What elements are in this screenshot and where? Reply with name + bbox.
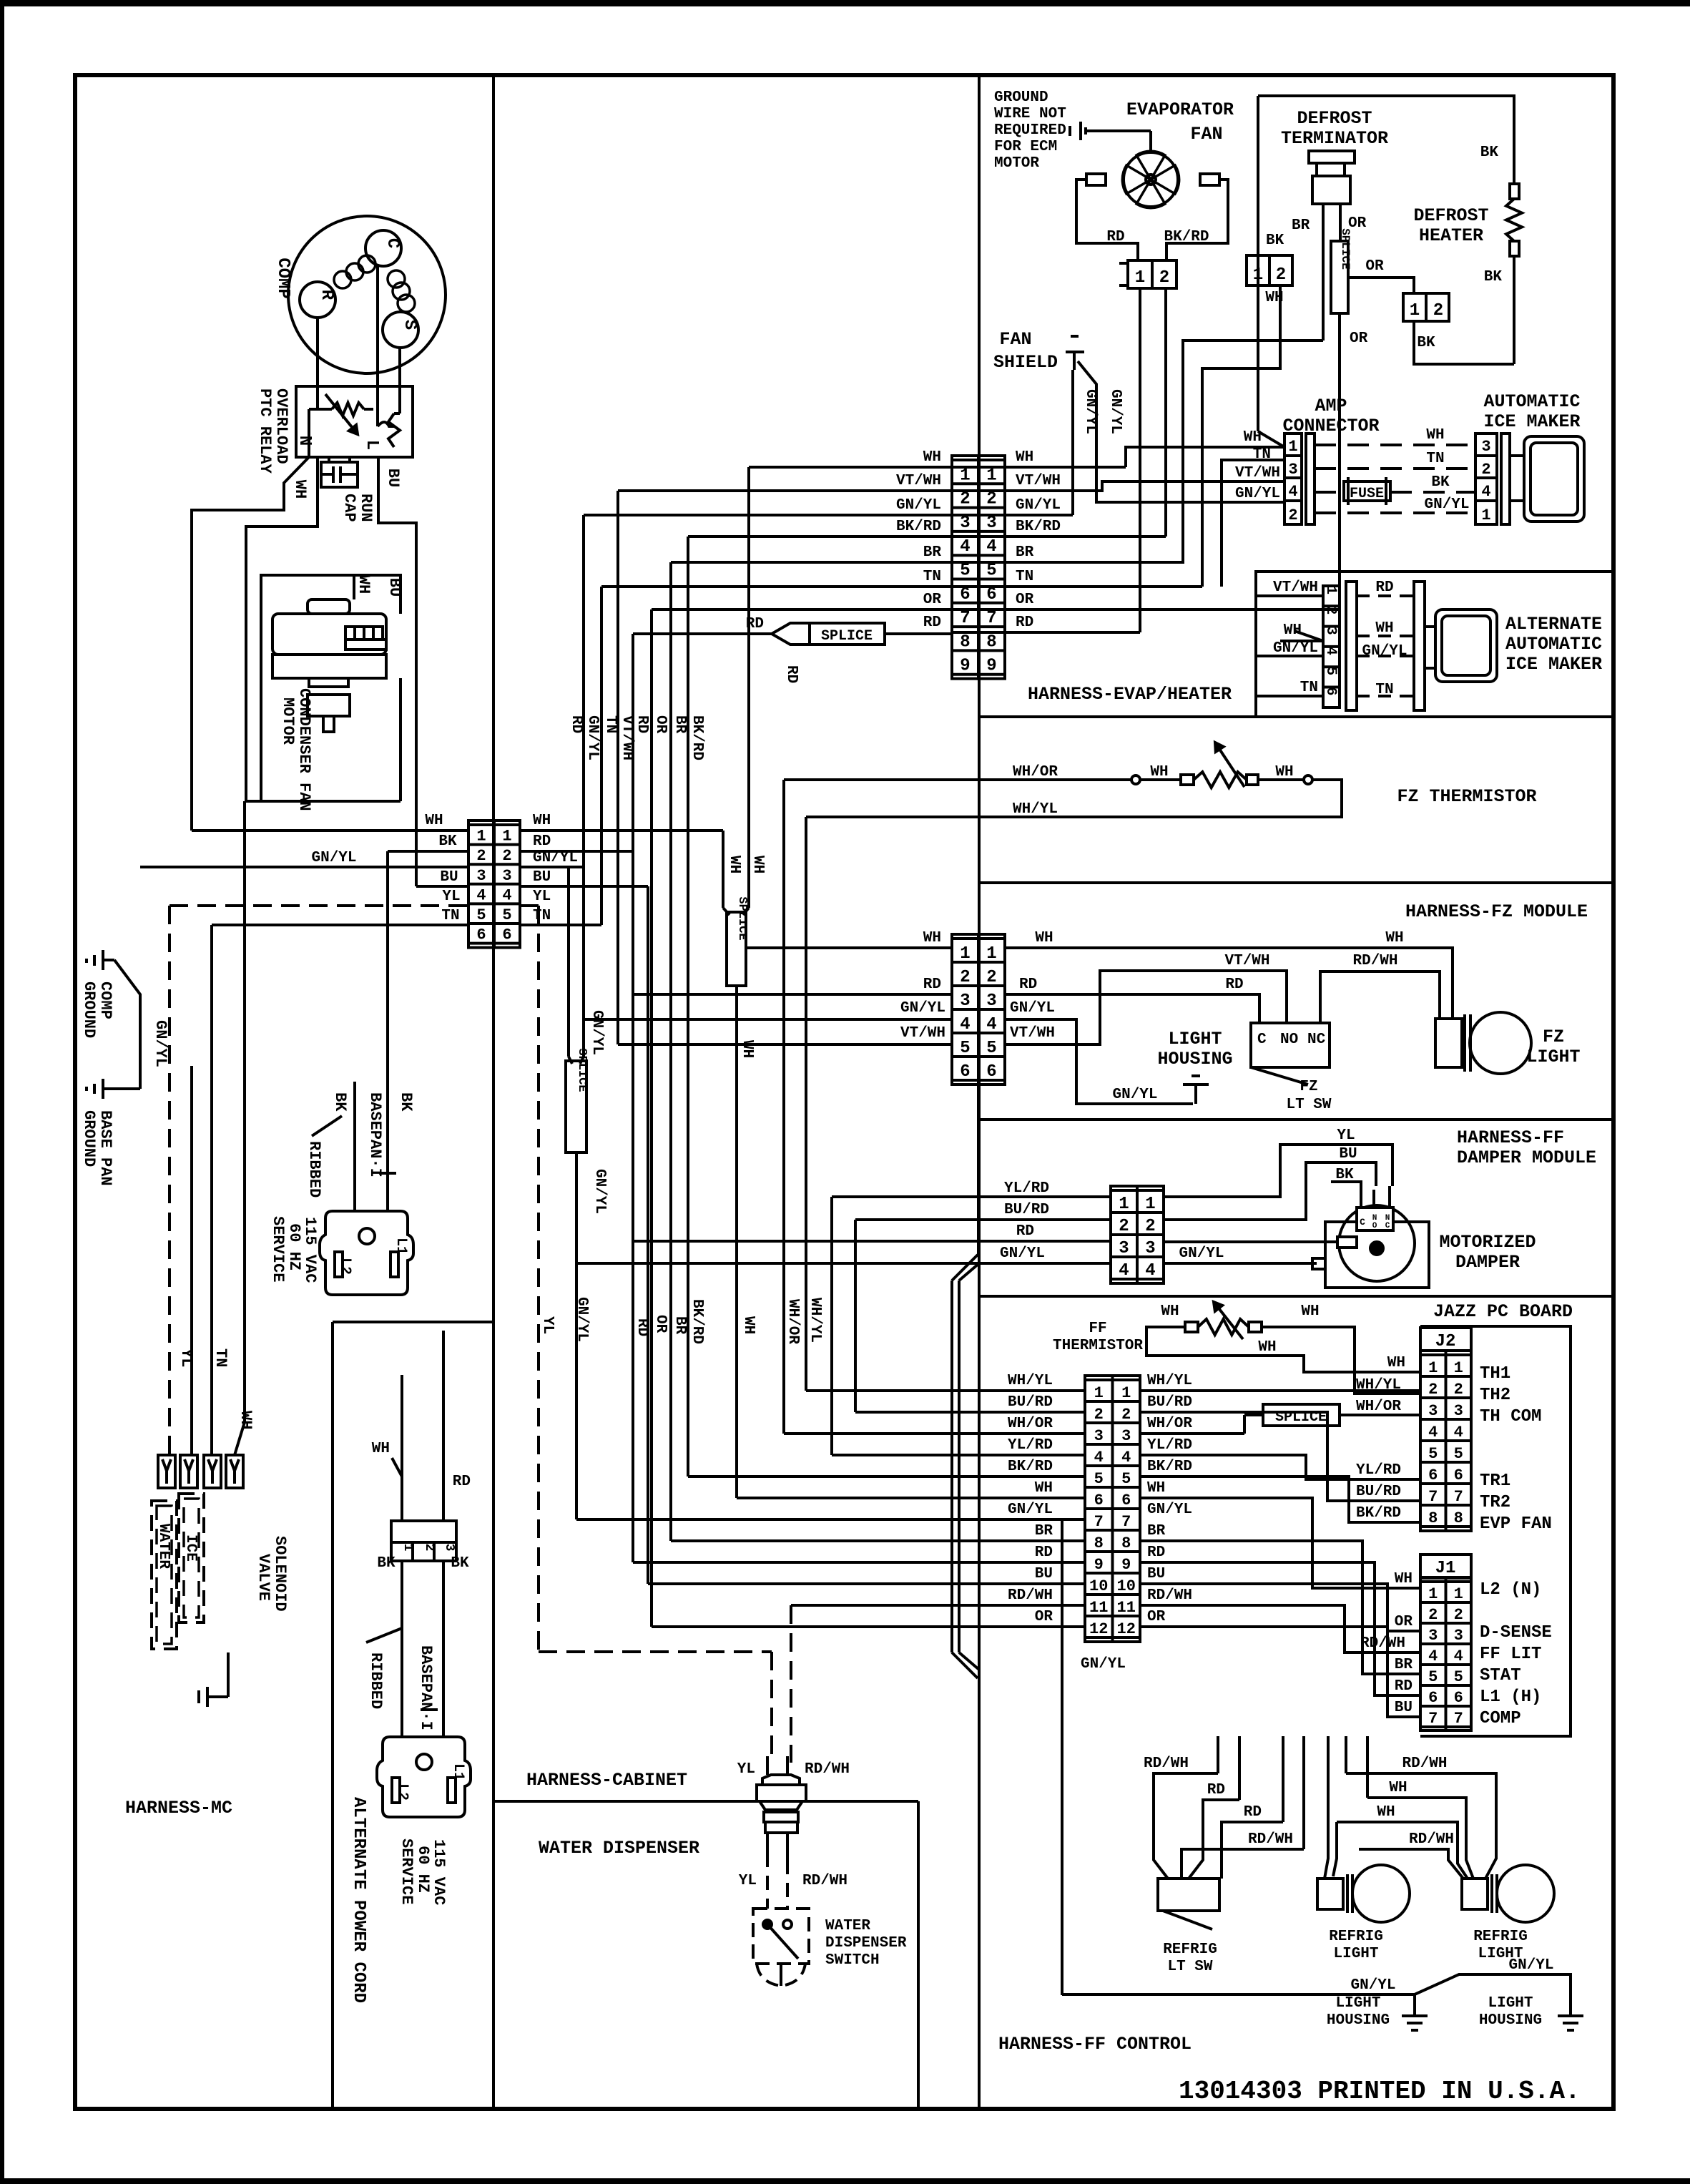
dashed harness rows to ice maker	[1315, 444, 1475, 446]
svg-text:2: 2	[1454, 1381, 1463, 1399]
FZ light bulb globe	[1470, 1012, 1531, 1074]
9-pin row1 wire WH	[749, 466, 952, 469]
basepan tick	[379, 1172, 396, 1175]
svg-text:VALVE: VALVE	[255, 1554, 272, 1601]
12-pin right row BK/RD to J2 EVP FAN	[1140, 1477, 1420, 1522]
svg-text:7: 7	[1094, 1513, 1104, 1531]
svg-text:1: 1	[1145, 1195, 1155, 1214]
svg-text:TN: TN	[602, 715, 619, 733]
defrost heater connector 1-2	[1403, 293, 1449, 321]
splice OR output right	[1348, 278, 1414, 293]
svg-text:BK: BK	[1480, 145, 1499, 161]
GN/YL wire to bottom section	[1061, 1519, 1063, 1995]
svg-text:BR: BR	[1395, 1657, 1413, 1673]
dashed GN/YL vertical to solenoid	[168, 906, 171, 1455]
svg-text:ICE MAKER: ICE MAKER	[1505, 654, 1602, 675]
svg-text:GN/YL: GN/YL	[1362, 643, 1407, 660]
svg-text:3: 3	[1094, 1427, 1104, 1445]
row RD to LT SW	[1189, 1800, 1239, 1879]
svg-text:TN: TN	[533, 908, 551, 924]
svg-text:3: 3	[1428, 1402, 1438, 1420]
dashed YL bus	[520, 904, 539, 907]
ground1 symbol	[1413, 1994, 1416, 2016]
divider below harness-fz module	[979, 1118, 1613, 1121]
svg-text:GROUND: GROUND	[80, 1110, 98, 1167]
damper pin2 wire BU	[1164, 1162, 1376, 1220]
6-pin A right row RD	[520, 850, 633, 853]
wire OR row7 to splice	[952, 608, 1340, 611]
defrost splice vertical	[1331, 241, 1348, 313]
relay overload switch	[378, 422, 395, 426]
wire WH from relay N down-left	[192, 457, 309, 831]
svg-text:BK: BK	[1417, 335, 1435, 351]
svg-text:STAT: STAT	[1480, 1666, 1521, 1685]
9-pin row6 wire TN	[601, 585, 952, 588]
12-pin left wires	[806, 1389, 1085, 1392]
svg-text:LIGHT: LIGHT	[1168, 1029, 1222, 1049]
svg-text:3: 3	[1145, 1239, 1155, 1258]
svg-text:WH: WH	[372, 1441, 390, 1457]
svg-text:RIBBED: RIBBED	[367, 1652, 385, 1709]
condenser fan motor shaft	[309, 678, 348, 687]
refrig light1 base	[1317, 1879, 1343, 1909]
svg-text:2: 2	[986, 490, 996, 509]
condenser fan motor top cap	[308, 599, 350, 614]
divider below harness-cabinet	[493, 1800, 918, 1803]
svg-text:BU: BU	[1339, 1146, 1357, 1162]
svg-text:1: 1	[476, 828, 486, 846]
solenoid ground wire	[227, 1652, 230, 1697]
12-pin right row BU to J1 COMP	[1140, 1584, 1420, 1717]
svg-text:BR: BR	[1016, 544, 1034, 561]
svg-text:GN/YL: GN/YL	[311, 850, 356, 866]
svg-text:3: 3	[502, 867, 511, 885]
svg-text:5: 5	[1454, 1445, 1463, 1463]
row WH right	[1367, 1798, 1473, 1879]
wire splice to 9-pin pin8	[885, 632, 952, 635]
ice maker connector pins	[1475, 434, 1497, 524]
svg-text:YL: YL	[177, 1348, 195, 1367]
bus BR	[669, 562, 672, 1541]
svg-text:2: 2	[476, 847, 486, 865]
svg-text:BK: BK	[1431, 474, 1450, 491]
svg-text:WH: WH	[1258, 1339, 1276, 1356]
connector A pin2 wire BK left	[388, 850, 468, 853]
svg-text:VT/WH: VT/WH	[1016, 473, 1061, 489]
svg-text:1: 1	[1428, 1585, 1438, 1603]
svg-text:O: O	[1372, 1222, 1377, 1230]
defrost terminator body	[1312, 176, 1350, 204]
svg-text:COMP: COMP	[1480, 1709, 1521, 1728]
svg-text:RD/WH: RD/WH	[1248, 1831, 1293, 1848]
switch contacts	[763, 1920, 772, 1929]
water inline connector	[762, 1775, 800, 1785]
svg-text:RD: RD	[923, 976, 941, 993]
FZ pin4 wire GN/YL to ground	[1005, 1019, 1193, 1104]
fan shield ground symbol	[1071, 335, 1079, 338]
svg-text:11: 11	[1117, 1599, 1136, 1617]
wire S to relay	[398, 347, 401, 413]
svg-text:GN/YL: GN/YL	[591, 1169, 608, 1214]
svg-text:BR: BR	[1292, 217, 1310, 234]
svg-text:J1: J1	[1435, 1559, 1456, 1578]
page edge left bar	[0, 0, 4, 2184]
svg-text:1: 1	[1288, 438, 1297, 456]
svg-text:OR: OR	[1147, 1609, 1166, 1625]
svg-text:6: 6	[476, 926, 486, 944]
svg-text:LT SW: LT SW	[1286, 1097, 1331, 1113]
svg-text:3: 3	[442, 1544, 456, 1552]
12-pin right row BU/RD to J2 TR2	[1140, 1412, 1420, 1501]
svg-text:BK/RD: BK/RD	[689, 1299, 705, 1344]
svg-text:2: 2	[1094, 1406, 1104, 1424]
damper center hub	[1370, 1242, 1383, 1255]
row RD/WH to LT SW	[1154, 1773, 1218, 1879]
svg-text:7: 7	[1454, 1488, 1463, 1506]
ice maker connector bar	[1501, 434, 1510, 524]
svg-text:WH: WH	[533, 813, 551, 829]
defrost heater loop	[1414, 321, 1514, 364]
divider alternate power cord left	[331, 1322, 334, 2109]
svg-text:10: 10	[1117, 1577, 1136, 1595]
svg-text:HARNESS-CABINET: HARNESS-CABINET	[526, 1770, 687, 1791]
svg-text:RD: RD	[533, 833, 551, 850]
svg-text:FZ: FZ	[1300, 1079, 1317, 1095]
svg-text:GN/YL: GN/YL	[589, 1010, 605, 1055]
alt cord RD wire	[442, 1331, 445, 1521]
svg-text:GN/YL: GN/YL	[1107, 389, 1124, 434]
svg-text:TH2: TH2	[1480, 1386, 1510, 1405]
FZ LT SW blade	[1251, 1067, 1308, 1084]
svg-text:5: 5	[1094, 1470, 1104, 1488]
svg-text:HARNESS-MC: HARNESS-MC	[125, 1798, 232, 1818]
svg-text:11: 11	[1089, 1599, 1108, 1617]
svg-text:PTC RELAY: PTC RELAY	[256, 388, 274, 474]
fan terminal right	[1200, 174, 1219, 185]
svg-text:4: 4	[986, 1015, 996, 1034]
svg-text:1: 1	[960, 944, 970, 964]
svg-text:GN/YL: GN/YL	[152, 1020, 170, 1067]
svg-text:L1: L1	[393, 1238, 409, 1255]
svg-text:MOTOR: MOTOR	[279, 697, 297, 745]
svg-text:C: C	[1360, 1217, 1365, 1228]
svg-text:1: 1	[986, 944, 996, 964]
svg-text:6: 6	[1454, 1466, 1463, 1484]
svg-text:3: 3	[986, 991, 996, 1011]
evaporator fan stem	[1149, 131, 1152, 153]
water valve dashed box WATER	[152, 1501, 177, 1649]
svg-text:WH: WH	[291, 480, 309, 499]
svg-text:5: 5	[476, 906, 486, 924]
comp terminal R	[300, 282, 335, 318]
svg-text:BK: BK	[397, 1092, 415, 1112]
svg-text:BR: BR	[1035, 1523, 1053, 1539]
svg-text:9: 9	[960, 657, 970, 676]
svg-text:4: 4	[1288, 483, 1297, 501]
svg-text:BR: BR	[923, 544, 942, 561]
svg-text:NO: NO	[1280, 1032, 1298, 1048]
wire R to relay resistor	[316, 317, 319, 409]
svg-text:TR1: TR1	[1480, 1471, 1510, 1491]
damper row BU/RD	[855, 1218, 1111, 1221]
splice GN/YL output	[575, 1152, 578, 1519]
row RD mid	[1222, 1822, 1283, 1879]
svg-text:HOUSING: HOUSING	[1479, 2012, 1542, 2029]
divider right of water dispenser	[917, 1801, 920, 2109]
svg-text:FUSE: FUSE	[1350, 486, 1384, 502]
connector A pin4 wire BU left	[416, 885, 468, 888]
damper pin1 wire YL	[1164, 1145, 1392, 1197]
J1 connector header	[1420, 1554, 1471, 1577]
svg-text:WH: WH	[726, 856, 742, 873]
wire TN row6	[952, 585, 1202, 588]
basepan tick alt	[421, 1708, 438, 1711]
svg-text:BU: BU	[533, 869, 551, 886]
plug prong L1	[390, 1252, 398, 1277]
FZ light bulb base	[1435, 1019, 1462, 1067]
relay resistor arrow	[325, 394, 358, 434]
svg-text:RD: RD	[1395, 1678, 1413, 1695]
SPLICE box row8	[810, 623, 885, 645]
svg-text:REFRIG: REFRIG	[1473, 1929, 1528, 1945]
svg-text:RD: RD	[746, 616, 764, 632]
svg-text:TN: TN	[212, 1348, 230, 1367]
svg-text:FF: FF	[1089, 1321, 1106, 1337]
wire RD row8 to evap	[952, 631, 1140, 634]
thermistor left node	[1131, 775, 1140, 784]
svg-text:SPLICE: SPLICE	[575, 1048, 589, 1092]
svg-text:YL/RD: YL/RD	[1147, 1437, 1192, 1454]
svg-text:2: 2	[1276, 265, 1286, 285]
svg-text:BU: BU	[1035, 1566, 1053, 1582]
svg-text:LIGHT: LIGHT	[1333, 1946, 1378, 1962]
alternate ice maker box	[1256, 572, 1613, 717]
svg-text:8: 8	[1454, 1509, 1463, 1527]
svg-text:RIBBED: RIBBED	[305, 1141, 323, 1198]
alt ice maker symbol	[1435, 609, 1497, 682]
svg-text:RD/WH: RD/WH	[1352, 953, 1397, 969]
page edge bottom bar	[0, 2178, 1690, 2184]
FZ pin1 wire WH to light	[1005, 948, 1453, 1019]
dashed YL horizontal to water dispenser	[539, 1650, 772, 1653]
damper row RD	[633, 1240, 1111, 1243]
svg-text:YL: YL	[533, 888, 551, 905]
AMP connector bar	[1306, 434, 1315, 524]
plug ground hole	[359, 1228, 375, 1244]
connector A pin3 wire GN/YL left	[140, 866, 468, 868]
svg-text:WATER DISPENSER: WATER DISPENSER	[539, 1838, 699, 1859]
fan loop wires	[1076, 180, 1138, 260]
svg-text:1: 1	[1454, 1359, 1463, 1377]
svg-text:EVP FAN: EVP FAN	[1480, 1514, 1552, 1534]
svg-text:6: 6	[502, 926, 511, 944]
svg-text:D-SENSE: D-SENSE	[1480, 1623, 1552, 1642]
splice WH output down	[735, 986, 738, 1498]
svg-text:L2 (N): L2 (N)	[1480, 1580, 1541, 1600]
svg-text:5: 5	[1322, 667, 1339, 675]
12-pin right row YL/RD to J2 TR1	[1140, 1455, 1420, 1479]
defrost terminator neck	[1317, 163, 1345, 176]
FF therm right wire	[1262, 1327, 1420, 1394]
wire WH row1 to AMP	[952, 466, 1126, 469]
bus VT/WH	[616, 491, 619, 1044]
wire light1 left drop	[1325, 1736, 1328, 1879]
svg-text:CONDENSER FAN: CONDENSER FAN	[295, 688, 313, 811]
damper rows from buses YL/RD	[832, 1195, 1111, 1198]
svg-text:FZ THERMISTOR: FZ THERMISTOR	[1397, 786, 1536, 807]
damper prongs	[1360, 1186, 1362, 1208]
svg-text:TN: TN	[1253, 446, 1271, 463]
svg-text:WATER: WATER	[825, 1918, 870, 1934]
svg-text:1: 1	[1253, 265, 1263, 285]
svg-text:WH: WH	[1161, 1303, 1179, 1320]
svg-text:WH/YL: WH/YL	[807, 1298, 823, 1343]
svg-text:WH: WH	[1426, 427, 1444, 444]
svg-text:13014303 PRINTED IN U.S.A.: 13014303 PRINTED IN U.S.A.	[1179, 2077, 1581, 2106]
solenoid ground symbol	[206, 1687, 209, 1707]
wire GN/YL fan shield to row3	[1071, 370, 1074, 515]
svg-text:GN/YL: GN/YL	[1000, 1245, 1045, 1262]
svg-text:3: 3	[476, 867, 486, 885]
comp terminal C	[365, 230, 401, 266]
divider between left and middle section	[492, 75, 495, 2109]
FZ module GN/YL row	[584, 1018, 952, 1021]
svg-text:2: 2	[960, 490, 970, 509]
comp ground symbol	[102, 950, 104, 970]
water wires below connector	[766, 1833, 769, 1853]
svg-text:RD: RD	[1147, 1544, 1165, 1561]
svg-text:GROUND: GROUND	[80, 981, 98, 1038]
damper row GN/YL	[576, 1262, 1111, 1265]
svg-text:REQUIRED: REQUIRED	[994, 122, 1066, 139]
svg-text:SWITCH: SWITCH	[825, 1952, 880, 1969]
svg-text:1: 1	[1119, 1195, 1129, 1214]
svg-text:RD: RD	[1375, 579, 1393, 596]
svg-text:LT SW: LT SW	[1167, 1959, 1212, 1975]
svg-text:RD: RD	[1016, 614, 1033, 631]
svg-text:YL: YL	[737, 1761, 755, 1778]
svg-text:GN/YL: GN/YL	[1350, 1977, 1395, 1994]
svg-text:4: 4	[476, 886, 486, 904]
motorized damper circle	[1339, 1205, 1415, 1281]
svg-text:RD: RD	[1019, 976, 1037, 993]
svg-text:CAP: CAP	[340, 494, 358, 522]
svg-text:DEFROST: DEFROST	[1413, 205, 1488, 226]
svg-text:3: 3	[1322, 627, 1339, 635]
svg-text:4: 4	[986, 537, 996, 557]
svg-text:RD: RD	[1016, 1223, 1034, 1240]
svg-text:2: 2	[1119, 1217, 1129, 1236]
FZ LT SW switch box	[1251, 1023, 1330, 1067]
svg-text:WH/OR: WH/OR	[1013, 764, 1058, 780]
svg-text:BK/RD: BK/RD	[1164, 229, 1209, 245]
svg-text:BR: BR	[672, 715, 688, 734]
svg-text:3: 3	[1119, 1239, 1129, 1258]
alternate power plug	[377, 1737, 471, 1817]
svg-text:1: 1	[1094, 1384, 1104, 1402]
FZ module VT/WH row	[618, 1043, 952, 1046]
motorized damper box	[1325, 1222, 1429, 1288]
svg-text:7: 7	[1428, 1710, 1438, 1728]
svg-text:12: 12	[1117, 1620, 1136, 1638]
svg-text:WH/OR: WH/OR	[1008, 1416, 1053, 1432]
svg-text:ICE MAKER: ICE MAKER	[1483, 411, 1580, 432]
ice maker symbol	[1524, 436, 1584, 521]
svg-text:BK/RD: BK/RD	[1147, 1459, 1192, 1475]
wire RD/WH drop 4	[1302, 1736, 1305, 1849]
alt ice maker 6-pin connector	[1323, 586, 1340, 707]
svg-text:VT/WH: VT/WH	[900, 1025, 945, 1042]
jazz pc board box	[1420, 1326, 1571, 1736]
9-pin row4 wire BK/RD	[688, 535, 952, 538]
svg-text:ALTERNATE POWER CORD: ALTERNATE POWER CORD	[349, 1797, 368, 2003]
svg-text:5: 5	[986, 1039, 996, 1058]
svg-text:3: 3	[1288, 461, 1297, 479]
svg-text:COMP: COMP	[97, 981, 114, 1019]
damper terminal block	[1357, 1208, 1393, 1230]
evap fan wires down RD	[1139, 288, 1141, 632]
svg-text:WH/YL: WH/YL	[1008, 1373, 1053, 1389]
9-pin row2 wire VT/WH	[618, 489, 952, 492]
water dispenser switch dashed box	[753, 1909, 809, 1964]
svg-text:5: 5	[1121, 1470, 1131, 1488]
svg-text:TN: TN	[1016, 569, 1033, 585]
alt ice maker stubs	[1425, 625, 1435, 628]
svg-text:OR: OR	[1350, 330, 1368, 347]
svg-text:YL/RD: YL/RD	[1008, 1437, 1053, 1454]
condenser fan motor wire loop	[261, 575, 401, 801]
connector harness-cabinet 9-pin	[952, 456, 978, 679]
svg-text:60 HZ: 60 HZ	[285, 1223, 303, 1270]
svg-text:5: 5	[1428, 1668, 1438, 1686]
svg-text:7: 7	[986, 609, 996, 628]
divider between middle and right section	[978, 75, 981, 2109]
svg-text:WH: WH	[1147, 1480, 1165, 1497]
bus BU/RD	[854, 1220, 857, 1412]
12-pin right row RD/WH to J1 FF LIT	[1140, 1605, 1420, 1652]
evap fan wires down BK/RD	[1164, 288, 1167, 537]
svg-text:FF LIT: FF LIT	[1480, 1645, 1541, 1664]
svg-text:GN/YL: GN/YL	[1508, 1957, 1553, 1974]
svg-text:FZ: FZ	[1543, 1027, 1564, 1047]
svg-text:TERMINATOR: TERMINATOR	[1281, 128, 1388, 149]
BK wire damper	[1331, 1182, 1361, 1186]
svg-text:VT/WH: VT/WH	[619, 715, 635, 760]
bus OR	[650, 609, 653, 1627]
defrost heater top wire	[1258, 96, 1514, 184]
condenser fan motor body	[272, 614, 386, 655]
svg-text:5: 5	[1428, 1445, 1438, 1463]
svg-text:BU: BU	[384, 469, 402, 487]
svg-text:4: 4	[960, 537, 970, 557]
bus WH from 9-pin	[747, 467, 750, 908]
fan terminal left	[1086, 174, 1106, 185]
divider below harness-ff damper module	[979, 1295, 1613, 1298]
comp terminal S	[383, 312, 418, 348]
svg-text:GN/YL: GN/YL	[1016, 497, 1061, 514]
bus WH from 6-pin	[722, 831, 724, 908]
svg-text:7: 7	[960, 609, 970, 628]
heater resistor top lead	[1510, 184, 1519, 199]
svg-text:6: 6	[986, 1062, 996, 1082]
svg-text:4: 4	[960, 1015, 970, 1034]
svg-text:8: 8	[960, 632, 970, 652]
wire BK/RD row4 to evap	[952, 535, 1166, 538]
svg-text:3: 3	[1481, 438, 1490, 456]
svg-text:FAN: FAN	[999, 329, 1031, 350]
svg-text:RD: RD	[634, 715, 650, 733]
svg-text:WH/OR: WH/OR	[1147, 1416, 1192, 1432]
